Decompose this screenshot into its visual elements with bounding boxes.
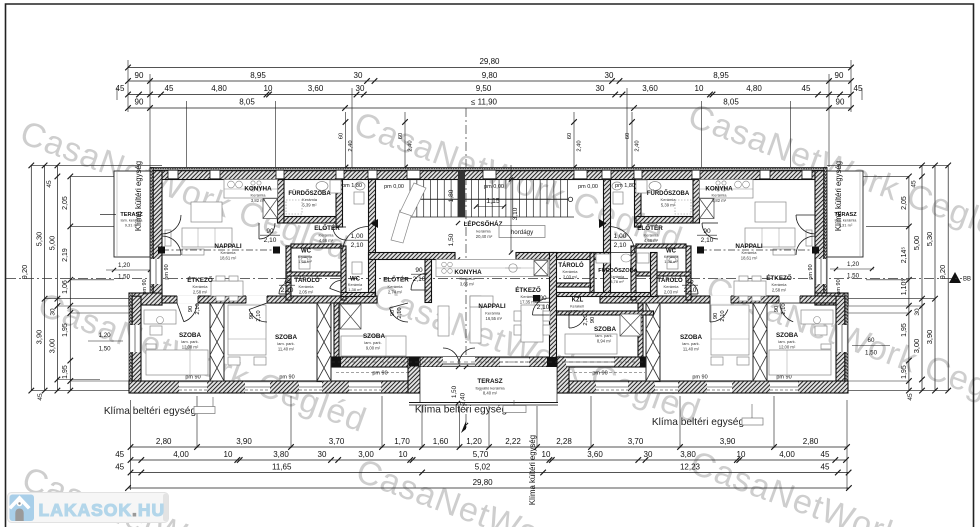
top dimension row 90/8,95/30/9,80/30/8,95/90: [128, 80, 851, 82]
staircase mid rail: [410, 198, 568, 200]
svg-text:3,60: 3,60: [587, 450, 603, 459]
svg-text:1,20: 1,20: [466, 437, 482, 446]
svg-text:30: 30: [318, 450, 327, 459]
svg-text:75: 75: [686, 278, 694, 285]
tv right: [806, 230, 812, 246]
svg-text:pm 0,00: pm 0,00: [578, 184, 598, 190]
svg-text:2,10: 2,10: [351, 242, 364, 249]
svg-text:2,10: 2,10: [720, 310, 726, 321]
window right wall pm90: [815, 259, 827, 284]
svg-text:2,58 m²: 2,58 m²: [193, 290, 208, 295]
svg-text:WC: WC: [666, 249, 677, 255]
right dimension column 9,20: [947, 165, 949, 390]
svg-text:KZL: KZL: [572, 298, 584, 304]
door openings bedroom walls: [177, 296, 198, 304]
bottom dimension row 45/4,00/10/3,80/30/3,00/10/5,70/10/3,60/30/3,80/10/4,00/45: [131, 459, 847, 461]
svg-text:8,40 m²: 8,40 m²: [483, 391, 498, 396]
svg-text:90: 90: [713, 313, 719, 319]
svg-text:20,40 m²: 20,40 m²: [476, 234, 493, 239]
szoba1 left bed: [146, 350, 208, 375]
svg-text:pm 90: pm 90: [808, 264, 814, 279]
svg-text:2,19: 2,19: [62, 248, 69, 262]
stair dim 3,10 rot: [510, 165, 512, 253]
svg-text:2,14⁵: 2,14⁵: [901, 247, 908, 264]
parapet strip left pm90: [336, 372, 408, 374]
corner wall left of centre terrace: [408, 357, 420, 393]
svg-text:pm 90: pm 90: [279, 375, 294, 381]
svg-text:lam. park.: lam. park.: [682, 341, 700, 346]
door centre eloter: [411, 273, 428, 290]
wc room left toilet: [299, 256, 310, 269]
centre bathroom fixtures: [596, 254, 610, 263]
svg-text:3,78 m²: 3,78 m²: [610, 279, 624, 284]
svg-text:FÜRDŐSZOBA: FÜRDŐSZOBA: [647, 190, 690, 197]
svg-text:2,10: 2,10: [281, 287, 294, 294]
french door left terrace: [162, 215, 181, 234]
window centre south wall szoba: [566, 357, 614, 367]
top wall joint caps: [276, 170, 284, 179]
svg-text:90: 90: [135, 97, 144, 106]
svg-text:18,61 m²: 18,61 m²: [220, 256, 237, 261]
svg-text:11,40 m²: 11,40 m²: [683, 347, 700, 352]
svg-text:FÜRDŐSZOBA: FÜRDŐSZOBA: [288, 190, 331, 197]
svg-text:pm 1,80: pm 1,80: [615, 183, 635, 189]
svg-text:3,90: 3,90: [720, 437, 736, 446]
svg-text:Kerámia: Kerámia: [563, 269, 579, 274]
svg-text:1,95: 1,95: [901, 365, 908, 379]
svg-text:pm 90: pm 90: [142, 279, 148, 294]
svg-text:1,50: 1,50: [865, 350, 878, 357]
svg-text:2,40: 2,40: [348, 140, 354, 151]
top dimension row 90/8,05/11,90/8,05/90: [128, 107, 851, 109]
stretcher template tilted rects: [391, 183, 426, 243]
door centre east: [533, 298, 550, 315]
svg-text:2,10: 2,10: [397, 307, 403, 318]
svg-text:KONYHA: KONYHA: [705, 186, 733, 193]
right dimension column 2,05/2,14/1,10/1,95/1,95: [908, 176, 910, 390]
bathroom left fixtures: [286, 200, 302, 214]
window right lower wall: [836, 325, 848, 352]
svg-text:29,80: 29,80: [479, 57, 500, 66]
svg-text:1,10⁵: 1,10⁵: [901, 279, 908, 296]
svg-text:5,30: 5,30: [925, 232, 934, 247]
divider szoba2/szoba3 left: [317, 303, 331, 381]
svg-text:KONYHA: KONYHA: [244, 186, 272, 193]
svg-text:90: 90: [590, 317, 596, 323]
centre axis line vertical: [465, 108, 467, 428]
top dimension row 29,80: [128, 67, 851, 69]
svg-text:60: 60: [625, 133, 631, 139]
szoba3 left wardrobe: [340, 304, 361, 329]
svg-text:3,60: 3,60: [642, 84, 658, 93]
szoba1 right bed: [769, 350, 831, 375]
svg-text:30: 30: [914, 308, 921, 316]
svg-text:TÁROLÓ: TÁROLÓ: [294, 276, 320, 284]
svg-text:90: 90: [188, 306, 194, 312]
svg-text:3,70: 3,70: [628, 437, 644, 446]
window left wall pm90: [150, 259, 162, 284]
window centre south wall nappali: [500, 357, 529, 367]
nappali axis left: [162, 249, 277, 251]
svg-text:10: 10: [399, 450, 408, 459]
etkezo table right: [734, 281, 766, 296]
svg-text:2,58 m²: 2,58 m²: [772, 288, 787, 293]
terrace centre outline: [420, 367, 557, 404]
leader line terrace left: [100, 214, 116, 216]
svg-text:3,65 m²: 3,65 m²: [460, 282, 475, 287]
door szoba2 right: [710, 310, 728, 323]
svg-text:TÁROLÓ: TÁROLÓ: [558, 261, 584, 269]
door bathroom left: [259, 223, 275, 239]
svg-text:1,60: 1,60: [433, 437, 449, 446]
svg-text:11,65: 11,65: [272, 462, 292, 471]
svg-text:Kerámia: Kerámia: [460, 276, 476, 281]
svg-text:SZOBA: SZOBA: [179, 332, 201, 339]
svg-text:10: 10: [542, 450, 551, 459]
svg-text:3,80: 3,80: [680, 450, 696, 459]
kitchen counter right: [700, 180, 754, 199]
svg-text:2,05: 2,05: [901, 196, 908, 210]
svg-text:3,80: 3,80: [273, 450, 289, 459]
svg-text:8,95: 8,95: [250, 71, 266, 80]
svg-text:2,10: 2,10: [583, 314, 589, 325]
left extension lines: [31, 164, 162, 166]
windows bottom wall right block: [770, 381, 798, 393]
svg-text:90: 90: [415, 267, 423, 274]
svg-text:3,90: 3,90: [236, 437, 252, 446]
nappali sofa right: [745, 228, 795, 247]
nappali axis right: [700, 249, 815, 251]
svg-text:45: 45: [821, 450, 830, 459]
svg-text:SZOBA: SZOBA: [680, 334, 702, 341]
svg-text:Kerámia: Kerámia: [712, 193, 728, 198]
south wall centre band: [331, 357, 654, 367]
understair wc right fixtures: [612, 182, 622, 190]
svg-text:2,03 m²: 2,03 m²: [563, 275, 578, 280]
svg-text:kerámia: kerámia: [476, 229, 491, 234]
svg-text:45: 45: [911, 180, 918, 188]
svg-text:45: 45: [802, 84, 811, 93]
svg-text:Klíma kültéri egység: Klíma kültéri egység: [528, 435, 537, 505]
parapet strip right pm90: [569, 372, 645, 374]
centre szoba wardrobe: [620, 314, 641, 336]
svg-text:pm 90: pm 90: [185, 375, 200, 381]
svg-text:TÁROLÓ: TÁROLÓ: [657, 276, 683, 284]
svg-text:10: 10: [737, 450, 746, 459]
svg-text:SZOBA: SZOBA: [776, 332, 798, 339]
centre apartment east wall: [550, 253, 557, 358]
svg-text:1,50: 1,50: [448, 233, 455, 246]
exterior wall insulation band top: [150, 168, 827, 171]
svg-text:lam. park.: lam. park.: [277, 341, 295, 346]
svg-text:2,05: 2,05: [62, 196, 69, 210]
svg-text:2,40: 2,40: [460, 392, 467, 405]
svg-text:ÉTKEZŐ: ÉTKEZŐ: [766, 273, 792, 282]
door szoba1 right: [780, 303, 793, 322]
svg-text:pm 90: pm 90: [164, 264, 170, 279]
left core wall below stairs: [341, 293, 375, 297]
svg-text:4,80: 4,80: [211, 84, 227, 93]
svg-text:1,50: 1,50: [847, 273, 860, 280]
svg-text:pm 90: pm 90: [592, 371, 607, 377]
svg-text:12,00 m²: 12,00 m²: [182, 345, 199, 350]
svg-text:3,90: 3,90: [35, 330, 44, 345]
svg-text:5,00: 5,00: [912, 236, 921, 251]
bedroom wall left apartment: [162, 296, 377, 303]
svg-text:WC: WC: [350, 277, 361, 283]
door wc b left: [330, 280, 341, 288]
svg-text:75: 75: [283, 278, 291, 285]
svg-text:LÉPCSŐHÁZ: LÉPCSŐHÁZ: [464, 219, 503, 228]
svg-text:lam. park.: lam. park.: [595, 333, 613, 338]
tv left: [165, 230, 171, 246]
svg-text:Klíma beltéri egység: Klíma beltéri egység: [652, 417, 745, 428]
svg-text:1,20: 1,20: [118, 262, 131, 269]
svg-text:3,82 m²: 3,82 m²: [712, 198, 727, 203]
bathroom left west wall: [278, 180, 285, 224]
door szoba1 left: [184, 303, 197, 322]
svg-text:Klíma beltéri egység: Klíma beltéri egység: [415, 405, 508, 416]
svg-text:45: 45: [115, 450, 124, 459]
svg-text:4,66 m²: 4,66 m²: [644, 238, 659, 243]
svg-text:WC: WC: [301, 249, 312, 255]
bottom dimension row 29,80: [128, 487, 849, 489]
svg-text:1,20: 1,20: [847, 261, 860, 268]
svg-text:90: 90: [836, 97, 845, 106]
black square markers on south band: [331, 358, 341, 367]
svg-text:8,94 m²: 8,94 m²: [597, 339, 612, 344]
wc b left toilet and label: [352, 262, 362, 274]
szoba1 left desk: [144, 310, 176, 324]
svg-text:2,80: 2,80: [156, 437, 172, 446]
divider szoba1/szoba2 left: [210, 303, 224, 381]
bathroom right east wall: [693, 180, 700, 224]
svg-text:2,74 m²: 2,74 m²: [388, 290, 403, 295]
svg-text:≤ 11,90: ≤ 11,90: [471, 97, 498, 106]
centre dining table: [521, 305, 543, 342]
svg-text:11,40 m²: 11,40 m²: [278, 347, 295, 352]
left dimension column 9,20: [30, 165, 32, 390]
fridge right: [700, 199, 715, 219]
svg-text:30: 30: [354, 71, 363, 80]
svg-text:ELŐTÉR: ELŐTÉR: [637, 223, 663, 232]
door understair wc left: [333, 227, 346, 240]
svg-text:45: 45: [907, 393, 914, 401]
svg-text:1,95: 1,95: [901, 323, 908, 337]
svg-text:1,70: 1,70: [394, 437, 410, 446]
door szoba3 left: [390, 308, 408, 322]
svg-text:8,95: 8,95: [713, 71, 729, 80]
svg-text:10: 10: [695, 84, 704, 93]
door tarolo left: [279, 282, 291, 294]
divider szoba1/szoba2 right: [753, 303, 767, 381]
kitchen island right: [755, 202, 786, 222]
svg-text:hordágy: hordágy: [511, 229, 534, 236]
svg-text:3,00: 3,00: [912, 339, 921, 354]
bathroom right south wall: [636, 217, 693, 224]
svg-text:3,00: 3,00: [47, 339, 56, 354]
bottom extension lines: [130, 400, 132, 490]
svg-text:1,95: 1,95: [62, 323, 69, 337]
wc tarolo walls right: [686, 246, 691, 300]
svg-text:2,03 m²: 2,03 m²: [664, 290, 679, 295]
french door right terrace: [796, 215, 815, 234]
svg-text:ÉTKEZŐ: ÉTKEZŐ: [187, 275, 213, 284]
svg-text:10: 10: [224, 450, 233, 459]
exterior wall left upper: [150, 168, 153, 306]
svg-text:SZOBA: SZOBA: [275, 334, 297, 341]
svg-text:30: 30: [596, 84, 605, 93]
svg-text:45: 45: [165, 84, 174, 93]
szoba3 east wall right: [638, 303, 643, 357]
svg-text:2,10: 2,10: [684, 287, 697, 294]
terrace vertical dims 1,50 2,40: [456, 365, 460, 369]
svg-text:1,00: 1,00: [351, 233, 364, 240]
exterior wall left step: [129, 293, 132, 305]
svg-text:Kerámia: Kerámia: [193, 284, 209, 289]
svg-text:SZOBA: SZOBA: [594, 326, 616, 333]
door stairwell left apartment: [343, 227, 369, 253]
svg-text:NAPPALI: NAPPALI: [735, 243, 762, 250]
svg-text:TERASZ: TERASZ: [477, 378, 502, 385]
svg-text:3,82 m²: 3,82 m²: [251, 198, 266, 203]
exterior wall bottom right block: [557, 381, 848, 393]
svg-text:4,66 m²: 4,66 m²: [319, 238, 334, 243]
svg-text:2,05 m²: 2,05 m²: [299, 290, 314, 295]
svg-text:2,10: 2,10: [413, 276, 426, 283]
svg-text:pm 90: pm 90: [372, 371, 387, 377]
svg-text:10: 10: [264, 84, 273, 93]
centre szoba bed: [565, 334, 617, 354]
svg-text:5,39 m²: 5,39 m²: [661, 203, 676, 208]
svg-text:9,20: 9,20: [938, 265, 947, 280]
svg-text:16,55 m²: 16,55 m²: [486, 316, 503, 321]
section line B-B: [6, 278, 962, 280]
svg-text:2,10: 2,10: [701, 237, 714, 244]
svg-text:30: 30: [644, 450, 653, 459]
svg-text:45: 45: [115, 462, 124, 471]
svg-text:30: 30: [605, 71, 614, 80]
svg-text:2,10: 2,10: [264, 237, 277, 244]
svg-text:2,22: 2,22: [505, 437, 521, 446]
hordagy box: [499, 226, 545, 238]
bottom dimension row 2,80/3,90/3,70/1,70/1,60/1,20/2,22/2,28/3,70/3,90/2,80: [131, 446, 848, 448]
svg-text:45: 45: [46, 180, 53, 188]
svg-text:Klíma kültéri egység: Klíma kültéri egység: [134, 161, 143, 231]
svg-text:Klíma kültéri egység: Klíma kültéri egység: [834, 161, 843, 231]
exterior wall top: [150, 171, 827, 180]
exterior wall right step: [815, 293, 848, 305]
svg-text:1,15: 1,15: [486, 198, 500, 205]
svg-text:Kerámia: Kerámia: [251, 193, 267, 198]
svg-text:90: 90: [249, 313, 255, 319]
svg-text:8,05: 8,05: [239, 97, 255, 106]
wc room right toilet: [667, 256, 678, 269]
svg-text:2,40: 2,40: [577, 140, 583, 151]
bathroom right fixtures: [675, 200, 691, 214]
right dimension column 45/5,00/30/3,00/45: [921, 165, 923, 390]
svg-text:2,28: 2,28: [556, 437, 572, 446]
svg-text:2,10: 2,10: [256, 310, 262, 321]
svg-text:1,38 m²: 1,38 m²: [348, 287, 362, 292]
svg-text:90: 90: [835, 71, 844, 80]
terrace left outline: [114, 171, 150, 257]
svg-text:9,80: 9,80: [482, 71, 498, 80]
svg-text:8,05: 8,05: [723, 97, 739, 106]
svg-text:90: 90: [539, 295, 547, 302]
svg-text:90: 90: [266, 228, 274, 235]
understair room west wall right: [635, 180, 642, 228]
svg-text:pm 0,00: pm 0,00: [384, 184, 404, 190]
left dimension column 2,05/2,19/1,06/1,95/1,95: [69, 176, 71, 390]
svg-text:1,50: 1,50: [118, 274, 131, 281]
door stairwell right apartment: [609, 227, 635, 253]
svg-text:1,20: 1,20: [99, 332, 112, 339]
centre terrace french door: [443, 348, 459, 364]
top extension lines: [127, 60, 129, 112]
understair room west wall left: [336, 180, 343, 228]
stairwell south wall: [369, 253, 456, 260]
svg-text:ÉTKEZŐ: ÉTKEZŐ: [515, 285, 541, 294]
top dimension row 45/45/4,80/10/3,60/30/9,50/...: [128, 94, 851, 96]
nappali sofa left: [182, 228, 232, 247]
svg-text:Kerámia: Kerámia: [221, 250, 237, 255]
svg-text:pm 90: pm 90: [776, 375, 791, 381]
svg-text:60: 60: [868, 337, 875, 344]
svg-text:2,10: 2,10: [614, 242, 627, 249]
svg-text:Kerámia: Kerámia: [644, 233, 660, 238]
svg-text:5,02: 5,02: [475, 462, 491, 471]
svg-text:5,00: 5,00: [47, 236, 56, 251]
centre kitchen counter: [436, 260, 550, 277]
svg-text:4,00: 4,00: [779, 450, 795, 459]
svg-text:2,40: 2,40: [408, 140, 414, 151]
svg-text:1,57 m²: 1,57 m²: [570, 309, 584, 314]
szoba3 left bed: [341, 336, 406, 356]
svg-text:Kerámia: Kerámia: [302, 197, 318, 202]
svg-text:1,06: 1,06: [62, 280, 69, 294]
right dimension column 5,30/3,90: [934, 165, 936, 390]
svg-text:pm 1,80: pm 1,80: [342, 183, 362, 189]
svg-text:3,00: 3,00: [358, 450, 374, 459]
svg-text:FÜRDŐSZOBA: FÜRDŐSZOBA: [598, 267, 637, 274]
etkezo table left: [211, 281, 243, 296]
right extension lines: [827, 164, 948, 166]
svg-text:Klíma beltéri egység: Klíma beltéri egység: [104, 406, 197, 417]
centre tv: [438, 306, 449, 336]
exterior wall left lower: [129, 293, 132, 393]
svg-text:9,50: 9,50: [476, 84, 492, 93]
svg-text:lam. park.: lam. park.: [364, 340, 382, 345]
svg-text:1,80: 1,80: [448, 189, 455, 202]
svg-text:90: 90: [774, 306, 780, 312]
door bathroom right: [702, 223, 718, 239]
divider szoba2/szoba3 right: [646, 303, 660, 381]
windows bottom wall left block: [179, 381, 207, 393]
stairwell west wall: [369, 180, 376, 297]
understair wc left fixtures: [355, 182, 365, 190]
svg-text:1,00: 1,00: [614, 233, 627, 240]
svg-text:NAPPALI: NAPPALI: [214, 243, 241, 250]
centre core walls: [590, 253, 594, 293]
svg-text:2,10: 2,10: [781, 303, 787, 314]
svg-text:1,38 m²: 1,38 m²: [298, 259, 312, 264]
left dimension column 45/5,00/30/3,00/45: [56, 165, 58, 390]
svg-text:KONYHA: KONYHA: [454, 269, 482, 276]
svg-text:4,80: 4,80: [746, 84, 762, 93]
svg-text:lam. park.: lam. park.: [181, 339, 199, 344]
svg-text:1,38 m²: 1,38 m²: [664, 259, 678, 264]
